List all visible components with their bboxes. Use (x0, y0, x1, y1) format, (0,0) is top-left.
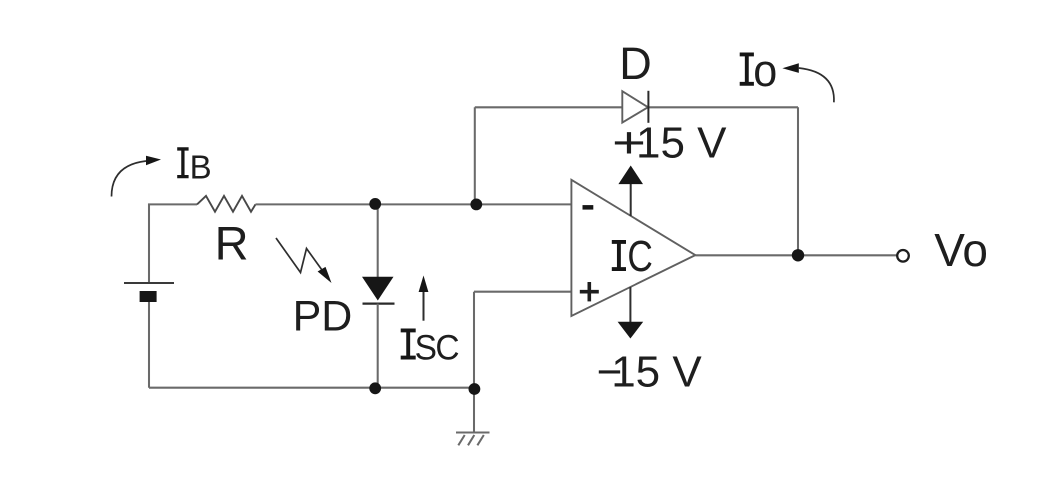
wire non-inverting input horizontal (474, 291, 571, 293)
svg-text:SC: SC (415, 328, 459, 368)
+15 V supply arrow (618, 166, 643, 217)
wire feedback vertical (474, 107, 476, 204)
wire feedback top rail (475, 106, 798, 108)
diode D (622, 91, 648, 123)
wire op-amp output (695, 254, 897, 256)
wire top rail (resistor to op-amp inverting input) (256, 203, 572, 205)
Isc current arrow (419, 276, 429, 321)
svg-text:15 V: 15 V (611, 348, 702, 397)
-15 V supply arrow (618, 287, 644, 339)
svg-text:PD: PD (293, 292, 353, 340)
photodiode PD (362, 277, 395, 304)
wire battery - to bottom rail (148, 302, 150, 388)
svg-text:B: B (190, 148, 212, 185)
svg-text:C: C (627, 232, 653, 281)
svg-text:15 V: 15 V (636, 119, 727, 168)
output terminal Vo (897, 250, 909, 262)
battery (124, 283, 174, 302)
node feedback tap (470, 199, 482, 211)
wire bottom rail (149, 387, 474, 389)
Io current arrow (curved) (782, 63, 834, 102)
svg-text:R: R (215, 217, 249, 270)
node photodiode bottom (369, 382, 381, 394)
IB current arrow (curved) (112, 156, 162, 197)
op-amp IC (571, 180, 695, 316)
label IB (177, 147, 211, 185)
wire photodiode column top (377, 204, 379, 277)
resistor R (197, 196, 256, 212)
node photodiode top (369, 198, 381, 210)
wire left vertical (battery + to top rail) (149, 204, 197, 283)
ground (456, 389, 490, 445)
svg-text:Vo: Vo (934, 224, 988, 276)
wire photodiode column bottom (377, 304, 379, 388)
svg-text:D: D (619, 38, 652, 89)
label IC (612, 232, 653, 281)
wire output right vertical (797, 107, 799, 255)
node output (792, 249, 804, 261)
label Isc (401, 328, 459, 368)
label Io (740, 45, 778, 96)
light arrow into PD (276, 238, 332, 283)
node ground junction (469, 383, 481, 395)
svg-text:o: o (753, 45, 777, 96)
wire non-inverting input vertical (473, 292, 475, 388)
